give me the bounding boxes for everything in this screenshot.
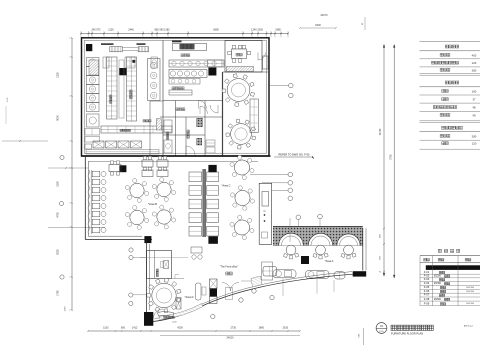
top bench connector [122, 48, 138, 51]
elevator side cab [226, 288, 233, 300]
keyed bubble near ramp [252, 289, 256, 293]
sofa set left of band [263, 267, 277, 277]
svg-text:F-03: F-03 [424, 277, 430, 281]
svg-text:37: 37 [472, 98, 476, 102]
mid room wall x150 [149, 101, 151, 156]
grid bubble entrance upper [129, 293, 133, 297]
booth cutout white circles [279, 233, 304, 258]
top bench hatched left [110, 47, 122, 52]
second burner row [169, 79, 200, 85]
leader ticks from bubbles to band [297, 220, 299, 227]
keyed note bubble mid floor 2 [318, 214, 323, 219]
svg-text:24020: 24020 [227, 337, 235, 340]
kitchen room divider x186 [185, 117, 187, 156]
pass counter island horizontal [101, 126, 172, 133]
grid bubble service room 2 [129, 255, 133, 259]
svg-text:1980: 1980 [258, 327, 264, 330]
booth arc 1 [279, 233, 304, 245]
svg-text:*Area D: *Area D [184, 295, 193, 299]
sofa set front office [191, 247, 202, 253]
kitchen room divider x175 [175, 101, 177, 157]
plating label [143, 120, 151, 122]
entry bubble 3 [239, 298, 243, 302]
area C round table 1 [250, 168, 254, 172]
dishwash room label vertical [187, 130, 189, 138]
area A band top edge [273, 226, 363, 228]
booth table 1 [286, 245, 296, 255]
svg-text:240 972: 240 972 [91, 29, 101, 32]
bar inner shelf [262, 192, 269, 207]
shelf hatch left [89, 60, 99, 75]
private room hatch band [227, 67, 254, 72]
bar dots [264, 214, 265, 215]
data table seating section [445, 81, 459, 84]
entry bubble 1 [129, 301, 133, 305]
small dim mark x365 [364, 17, 366, 30]
svg-text:1780: 1780 [57, 290, 60, 296]
svg-text:2440: 2440 [128, 29, 134, 32]
svg-text:120: 120 [472, 61, 477, 65]
equipment small boxes bottom left [85, 144, 92, 149]
storefront curve outer [153, 274, 353, 321]
service room divider [154, 251, 156, 279]
door arc room1 [199, 101, 207, 109]
dining column big round table 2 [252, 136, 256, 140]
svg-text:+0.00: +0.00 [172, 322, 177, 324]
bbq label [181, 54, 190, 57]
kitchen block outer wall [82, 38, 270, 156]
top dimension line [81, 33, 288, 35]
column booth bottom [208, 236, 218, 244]
top corridor table group 2 [142, 160, 153, 167]
svg-text:600: 600 [121, 327, 126, 330]
elevator shaft [210, 279, 218, 289]
private room door [258, 53, 266, 61]
sink unit left wall lower [87, 114, 100, 127]
svg-text:120: 120 [472, 142, 477, 146]
svg-text:F-04: F-04 [424, 281, 430, 285]
svg-text:2610: 2610 [283, 327, 289, 330]
bbq counter row2 [169, 60, 224, 67]
private room top-right wall [225, 41, 262, 73]
svg-text:48: 48 [472, 106, 476, 110]
kitchen partition wall right [222, 72, 224, 156]
kitchen room wall y100 [163, 100, 223, 102]
svg-text:FURNITURE FLOOR PLAN: FURNITURE FLOOR PLAN [391, 331, 423, 335]
entry bubble 4 [270, 295, 274, 299]
wok line counter [148, 59, 161, 101]
legend table title [438, 249, 460, 252]
main kitchen label [130, 90, 133, 99]
svg-text:1412: 1412 [132, 327, 138, 330]
top shelf dark strips [101, 43, 114, 45]
data table restaurant area [420, 40, 480, 42]
svg-text:49: 49 [472, 113, 476, 117]
pastry room label [176, 108, 185, 111]
kitchen block inner wall line [84, 40, 266, 153]
svg-text:*Area A: *Area A [325, 259, 334, 263]
kitchen partition wall vertical mid [162, 41, 164, 157]
elevator black walls [210, 289, 218, 297]
svg-text:3750: 3750 [390, 154, 393, 160]
svg-text:4730: 4730 [57, 212, 60, 218]
mid room label vertical [167, 132, 169, 140]
keyed note bubble mid floor [296, 215, 301, 220]
booth seats left column [90, 170, 92, 234]
svg-text:1240 2200: 1240 2200 [251, 29, 263, 32]
dishwash equipment row bottom [93, 141, 104, 148]
area A right end black bar [353, 271, 367, 276]
drawing title chinese [391, 325, 433, 330]
drawing number circle [376, 323, 387, 334]
area D big round table [176, 298, 180, 302]
svg-text:890 390 1180: 890 390 1180 [154, 29, 170, 32]
equipment bench bottom [86, 150, 159, 155]
booth arc 3 [337, 234, 360, 246]
svg-text:1200*600: 1200*600 [466, 291, 474, 293]
svg-text:F-07: F-07 [424, 293, 430, 297]
grid bubble service room 1 [129, 248, 133, 252]
wall fixture pair top [103, 57, 109, 68]
bbq area counters top [173, 44, 207, 51]
area B bottom wall [85, 239, 152, 241]
bar lower mark [262, 232, 268, 238]
grid line to bubbles right [269, 85, 288, 87]
kitchen block bottom thick edge [82, 155, 271, 157]
svg-text:Ø1600: Ø1600 [434, 299, 442, 301]
svg-text:Ø1200: Ø1200 [434, 276, 442, 278]
storefront curve inner [155, 272, 353, 319]
reception label [164, 316, 174, 318]
area B round table 1 [145, 191, 149, 195]
storefront mullion ticks [282, 278, 284, 296]
area D west corridor wall [145, 240, 147, 313]
bbq dark units [180, 44, 195, 50]
door arc room2 [210, 105, 218, 113]
area C round table 2 [250, 199, 254, 203]
keyed note bubbles right of bar [250, 174, 288, 176]
small dim near title [363, 328, 365, 345]
grid bubble left B [59, 201, 63, 205]
corridor lower line [88, 161, 258, 163]
svg-text:A3 Sca-n: A3 Sca-n [464, 325, 474, 328]
svg-text:2730: 2730 [231, 327, 237, 330]
area A hatched banquette band [273, 227, 363, 246]
grid bubble right 2 [289, 93, 294, 98]
top bench hatched right [138, 47, 148, 52]
dining column big round table 1 [250, 92, 254, 96]
svg-text:160: 160 [472, 89, 477, 93]
svg-text:F-09: F-09 [424, 301, 430, 305]
area B round table 2 [172, 190, 176, 194]
door swing lower room [186, 146, 195, 155]
sofa table set along storefront 3 [334, 272, 345, 279]
prep counter island 2 [127, 57, 137, 121]
right vertical dimension lines [383, 45, 385, 277]
top corridor table group 3 [157, 160, 168, 167]
svg-text:1980: 1980 [275, 29, 281, 32]
column area D entrance [144, 312, 153, 326]
svg-text:"The Front office": "The Front office" [220, 266, 239, 269]
bbq counter row3 with burners [169, 70, 207, 78]
kitchen room wall y117 [160, 116, 223, 118]
entrance paving hatch [159, 304, 203, 320]
svg-text:24070: 24070 [321, 14, 329, 17]
column kitchen mid-left [119, 68, 126, 75]
booth arc 2 [308, 233, 332, 245]
sofa table set along storefront 1 [273, 270, 296, 278]
narrow counter between islands [119, 60, 124, 118]
kitchen room divider x205 [204, 101, 206, 157]
stair ramp hatch [251, 276, 262, 287]
column area B bottom [144, 236, 151, 243]
small dark unit top mid [132, 60, 135, 63]
prep label 2 [110, 95, 112, 103]
grid bubble left C [60, 275, 64, 279]
column area A [301, 256, 309, 264]
left dimension line [71, 38, 73, 310]
booth table 3 [344, 245, 354, 255]
booth block tables left [189, 172, 202, 182]
service room doorway mark [172, 278, 185, 280]
svg-text:1100: 1100 [103, 327, 109, 330]
area A right wall [362, 228, 364, 270]
private room table [232, 49, 247, 59]
svg-text:+0.00: +0.00 [7, 97, 9, 103]
service counter below bar [262, 262, 273, 280]
top corridor table group 1 [109, 165, 121, 172]
elevator lower cell [210, 297, 218, 304]
booth block tables right [207, 172, 219, 182]
svg-text:F-05: F-05 [424, 285, 430, 289]
bottom dimension line [88, 330, 300, 332]
area B round table 4 [172, 218, 176, 222]
vertical sofa near elevator [196, 283, 202, 300]
sofa table set along storefront 2 [306, 271, 330, 279]
serving niche right wall [263, 56, 269, 69]
svg-text:Ø1350: Ø1350 [434, 283, 442, 285]
grid bubble left A [60, 155, 64, 159]
door arc mid room [200, 106, 208, 114]
svg-text:400: 400 [472, 53, 477, 57]
column kitchen mid-right [208, 68, 216, 76]
kitchen partition wall below private room [223, 71, 269, 73]
service room walls [147, 251, 172, 279]
service room label vertical [156, 269, 158, 277]
cold counter row4 [169, 90, 192, 95]
svg-text:F-06: F-06 [424, 289, 430, 293]
svg-text:6590: 6590 [213, 29, 219, 32]
service room fixture with X [164, 261, 169, 269]
svg-text:*Area B: *Area B [148, 202, 157, 206]
reception desk [158, 312, 175, 317]
prep counter island 1 [107, 57, 118, 119]
room sink bottom-left rooms [164, 140, 172, 153]
svg-text:N: N [264, 210, 266, 213]
private room label [236, 53, 242, 56]
area B round table 3 [145, 218, 149, 222]
legend table header [420, 255, 480, 257]
column kitchen top-left [86, 44, 92, 51]
small boxes left wall lower [85, 129, 100, 136]
area B left wall [84, 156, 86, 240]
left edge level marks [2, 140, 48, 142]
svg-text:6430: 6430 [315, 24, 321, 27]
svg-text:REFER TO DWG NO. F-05: REFER TO DWG NO. F-05 [279, 153, 310, 157]
svg-text:280: 280 [472, 134, 477, 138]
elevator lobby double doors [222, 283, 231, 292]
top corridor table group 4 [142, 170, 153, 177]
grid line through service room [140, 256, 188, 258]
kitchen room wall y135 [163, 134, 205, 136]
entry bubble 2 [211, 314, 215, 318]
svg-text:3130: 3130 [57, 181, 60, 187]
legend table vertical lines [419, 256, 421, 306]
shelf hatch room right 1 [197, 118, 203, 126]
column area B top [119, 165, 126, 172]
svg-text:6230: 6230 [57, 249, 60, 255]
shelf hatch room right 2 [197, 138, 202, 145]
svg-text:9000: 9000 [57, 115, 60, 121]
legend table black band [426, 265, 480, 270]
svg-text:F-02: F-02 [424, 274, 430, 278]
counter label [120, 129, 130, 131]
svg-text:1700: 1700 [65, 306, 67, 312]
data table fire zone section [442, 126, 463, 129]
stove line left wall [87, 58, 100, 67]
svg-text:280: 280 [472, 68, 477, 72]
cold dish label [172, 87, 184, 90]
grid bubble right 1 [289, 83, 294, 88]
svg-text:*Area C: *Area C [221, 184, 230, 188]
booth block center wall [203, 169, 206, 237]
svg-text:F-01: F-01 [424, 270, 430, 274]
svg-text:F-08: F-08 [424, 297, 430, 301]
svg-text:2130: 2130 [57, 72, 60, 78]
bar counter outline [259, 183, 272, 244]
boxes row right of bench [208, 60, 223, 67]
small room fixtures bottom [206, 140, 215, 146]
steam cabinet hatched [156, 119, 161, 130]
svg-text:1200*600: 1200*600 [466, 303, 474, 305]
serving counter dining column [250, 99, 258, 133]
area C round table 3 [250, 228, 254, 232]
booth table 2 [316, 245, 326, 255]
svg-text:1200*600: 1200*600 [466, 287, 474, 289]
column booth top [208, 165, 216, 172]
svg-text:1130: 1130 [108, 29, 114, 32]
svg-text:11740: 11740 [379, 128, 382, 135]
svg-text:4200: 4200 [177, 327, 183, 330]
entrance door arcs [153, 309, 163, 319]
door frame with X on storefront [176, 298, 181, 310]
